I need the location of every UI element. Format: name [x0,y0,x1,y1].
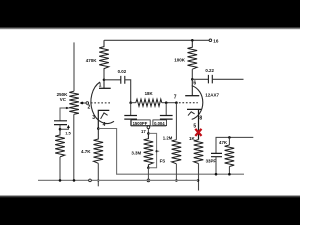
resistor 1.2M [175,103,177,140]
svg-text:12AX7: 12AX7 [205,92,219,97]
resistor 3.3M [144,133,154,167]
wire output top right [216,137,253,153]
wire cathode1 to bias rail A [98,129,244,175]
wire pot bottom to ground rail [73,114,75,180]
svg-text:FS: FS [160,159,166,164]
svg-text:1500PF: 1500PF [133,121,148,126]
svg-text:100K: 100K [174,58,186,63]
wire FS bypass loop [148,133,156,167]
tube V2 cathode [187,109,201,139]
svg-text:2: 2 [88,105,91,111]
svg-text:1K: 1K [189,136,196,141]
svg-text:470K: 470K [86,58,98,63]
wire 3.3M bottom to rail B [147,168,149,179]
resistor (below cap) [55,129,65,157]
svg-text:0.004: 0.004 [154,121,165,126]
pin 2 terminal [80,102,83,105]
capacitor 0.02 [104,79,121,81]
potentiometer 250K VC [69,91,79,114]
tube V2 heater [188,112,195,116]
terminal 17 [147,126,150,129]
node plate1 [103,79,106,82]
resistor 4.7K [94,129,104,164]
node cathode1 junction [97,127,100,130]
svg-text:VC: VC [60,97,67,102]
capacitor 1500PF [130,103,132,116]
node grid2 [175,101,178,104]
wire with arrow to pot [60,127,68,129]
capacitor 33PF [211,153,222,156]
svg-text:0.22: 0.22 [205,68,214,73]
node 3.3M bottom [147,166,150,169]
svg-text:33PF: 33PF [206,158,217,163]
letterbox top bar [0,0,300,27]
svg-text:6: 6 [193,80,196,86]
tube V1 plate bar [99,87,111,89]
svg-text:4: 4 [103,122,106,128]
tube V1 envelope arc [91,82,114,123]
svg-text:47K: 47K [219,140,228,145]
wire 470K bottom to plate node [103,71,105,80]
node 18K left [129,101,132,104]
wire 4.7K to rail with stub [97,163,99,186]
node 3.3M top [147,132,150,135]
tube V1 plate lead [103,80,105,89]
wire resistor to rail [59,157,61,181]
svg-text:17: 17 [141,129,146,134]
resistor 18K [131,102,136,104]
svg-text:18K: 18K [145,91,154,96]
node 18K right [165,101,168,104]
tube V1 heater [101,113,108,119]
wire caps common [131,125,166,127]
letterbox bottom bar [0,195,300,197]
red X mark [195,129,201,136]
svg-text:1.5: 1.5 [65,131,71,136]
tube V2 grid dashes [179,102,198,104]
svg-text:8: 8 [199,116,202,122]
wire top supply rail [104,39,210,41]
tube V1 grid dashes [91,102,111,104]
resistor 470K [99,40,109,70]
terminal 16 [209,39,212,42]
node plate2 [191,78,194,81]
capacitor 1.5 [54,121,67,125]
tube V2 plate: 100K [191,39,194,42]
wire pot left tap [60,108,70,121]
wire 0.02 to 18K node [125,80,131,103]
wire input line [73,42,75,91]
capacitor 0.22 [192,78,208,80]
node below cap [59,128,62,131]
svg-text:4.7K: 4.7K [81,149,91,154]
svg-text:16: 16 [213,38,219,43]
svg-text:7: 7 [174,95,177,101]
tube V2 envelope arc [192,86,203,120]
svg-text:1.2M: 1.2M [163,135,173,140]
tube V2 plate lead [191,79,193,95]
svg-text:3: 3 [92,115,95,121]
svg-text:0.02: 0.02 [118,69,127,74]
tube V1 cathode [98,110,109,128]
capacitor 0.004 [165,103,167,116]
svg-text:3.3M: 3.3M [131,151,141,156]
wire ground rail B [38,179,198,181]
